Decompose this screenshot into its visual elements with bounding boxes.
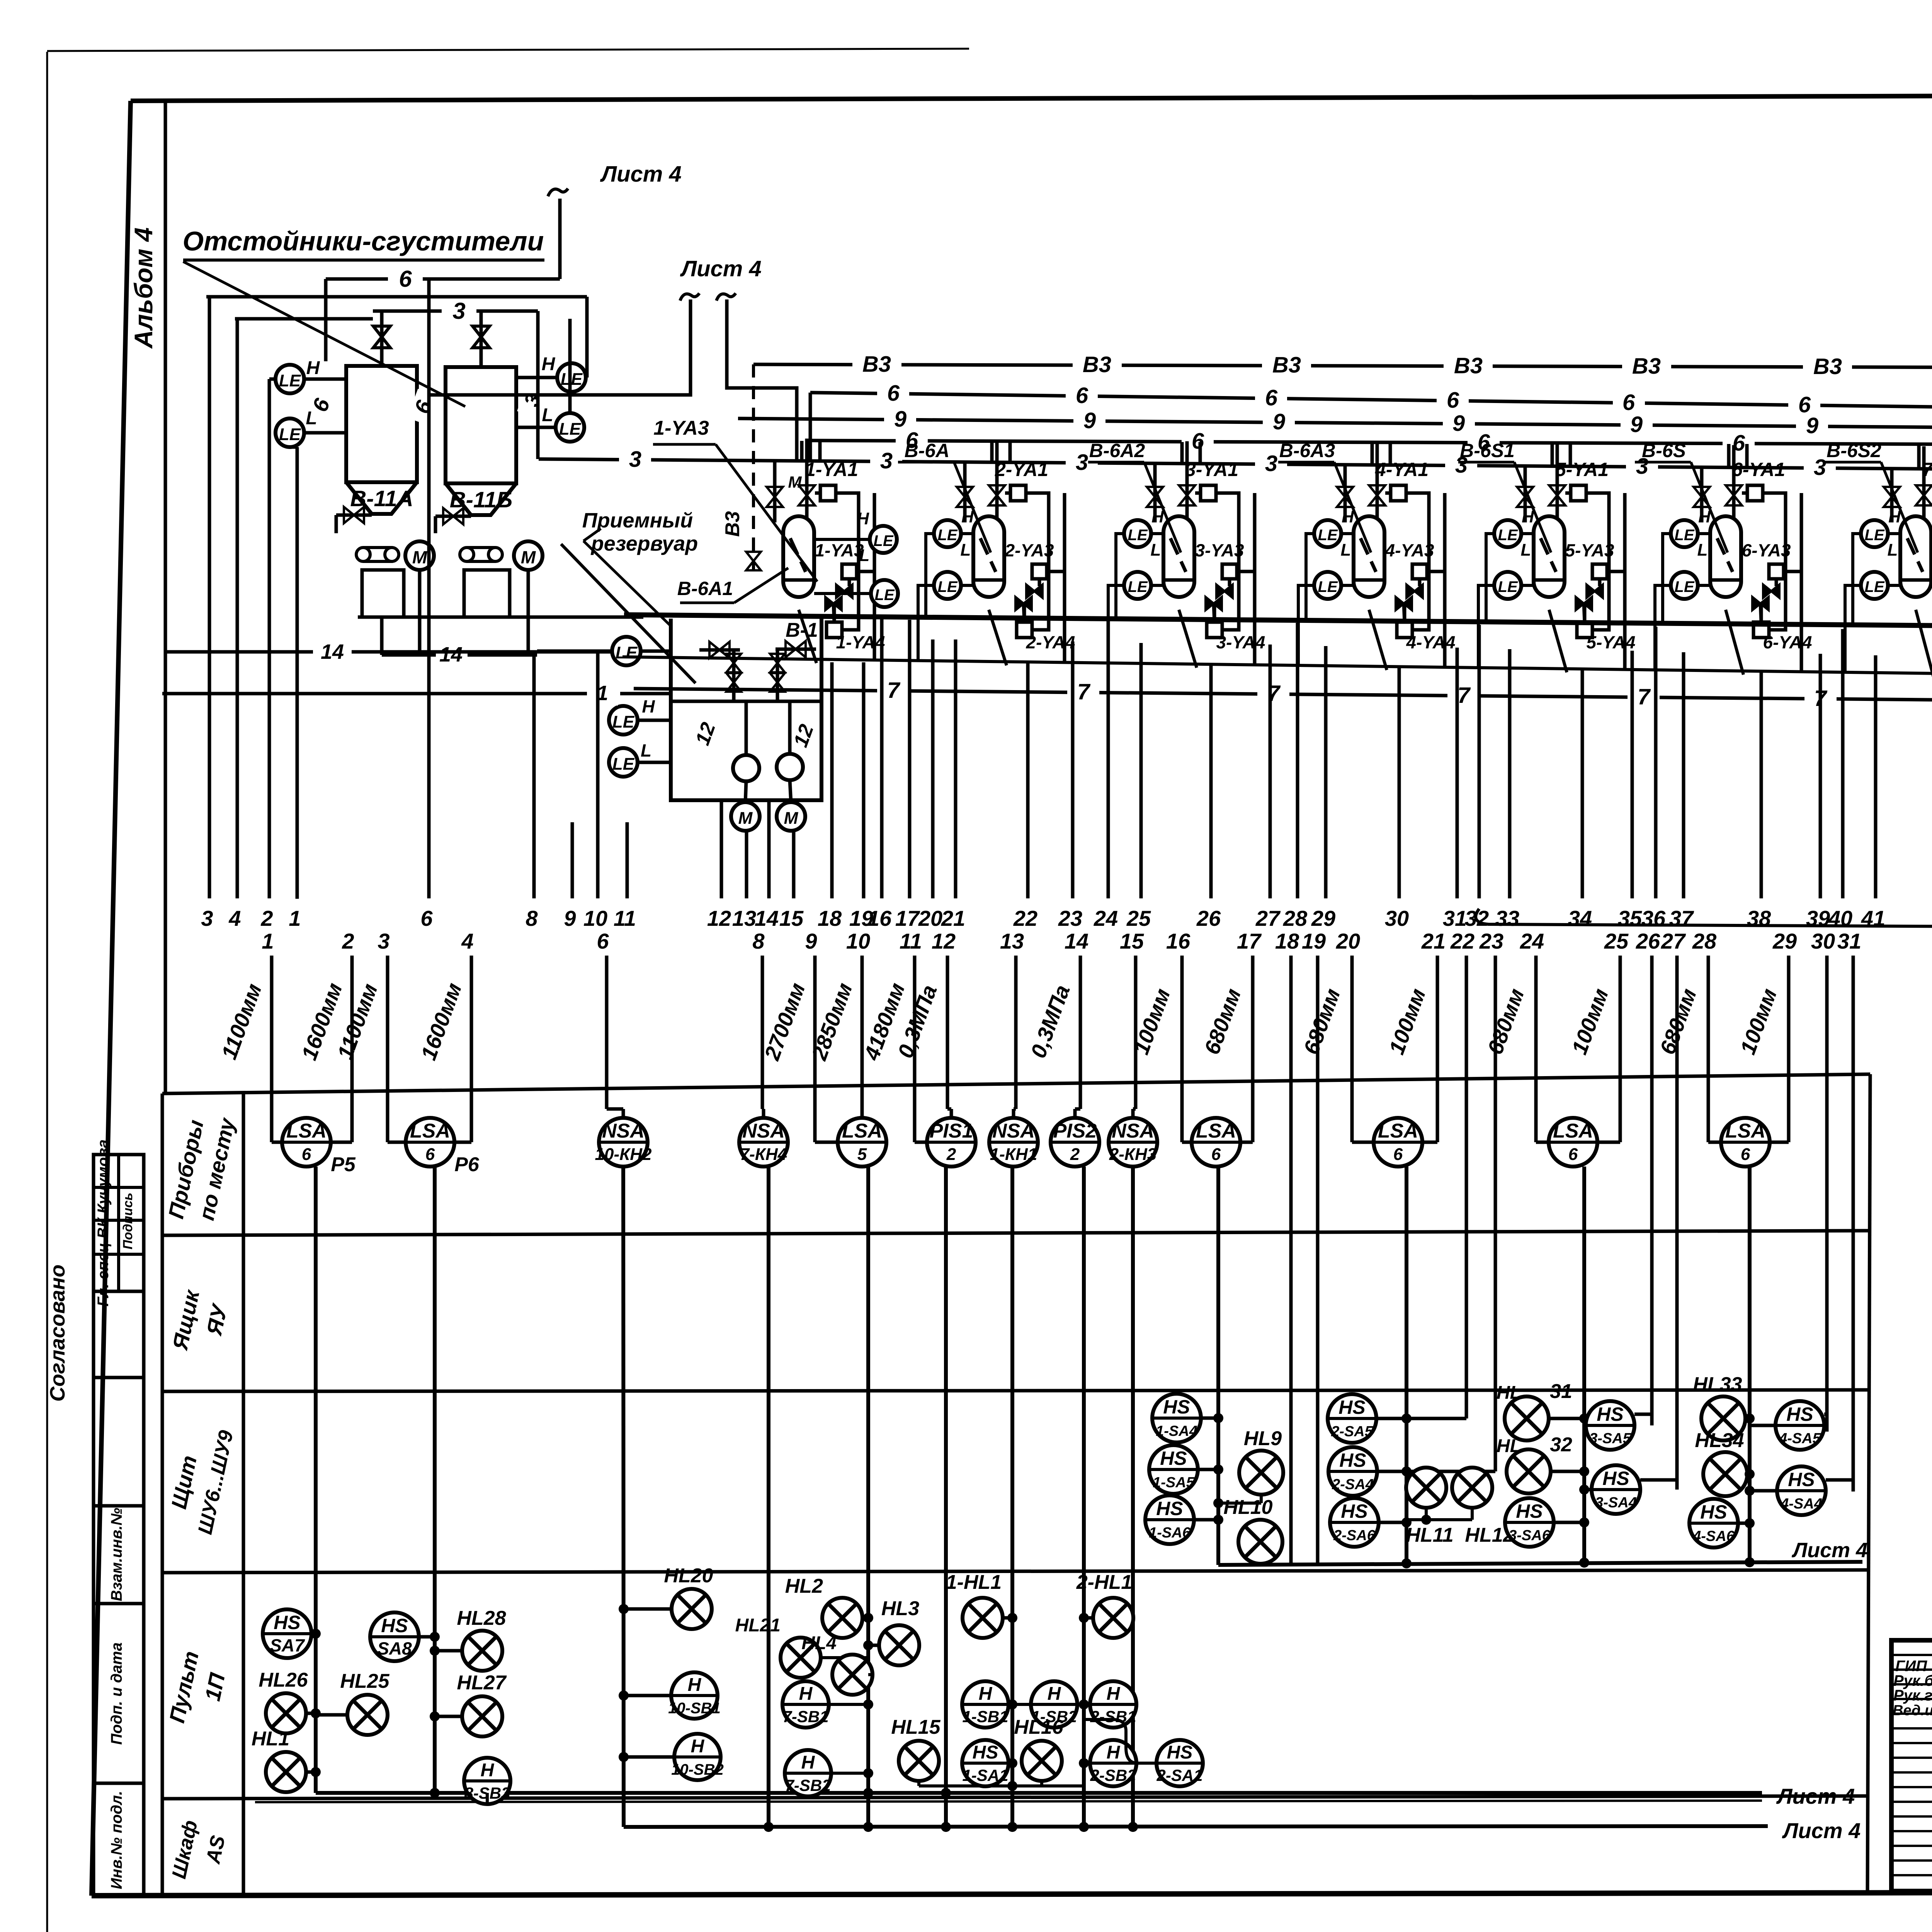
svg-text:8: 8: [526, 906, 538, 930]
unit В-6А3 valve line left: [1344, 466, 1347, 522]
svg-text:10-КН2: 10-КН2: [595, 1145, 652, 1164]
svg-text:В-6S2: В-6S2: [1827, 440, 1881, 461]
terminal line 17: [908, 620, 912, 898]
wire PIS2 column: [1082, 1167, 1086, 1827]
svg-text:17: 17: [1237, 929, 1262, 953]
HS 1-SA6: [1145, 1495, 1194, 1544]
unit В-6S2 valve line left: [1890, 469, 1894, 522]
unit В-6А stub risers: [990, 442, 994, 463]
svg-text:21: 21: [1421, 929, 1446, 953]
unit В-6S tank slash: [1717, 538, 1733, 572]
bus 6 upper: [810, 393, 1932, 410]
instrument PIS2 2: [1051, 1118, 1099, 1167]
HS SA8: [370, 1612, 419, 1661]
unit В-6А2 stub risers: [1180, 442, 1184, 464]
svg-text:3-YA4: 3-YA4: [1216, 632, 1265, 652]
LE H left: [276, 365, 304, 393]
unit LE L 7: [1861, 572, 1888, 599]
unit solenoid 6-YA1: [1747, 485, 1763, 501]
button H 8-SB3: [464, 1758, 510, 1804]
svg-text:5-YA4: 5-YA4: [1587, 632, 1636, 652]
svg-text:32: 32: [1550, 1434, 1572, 1456]
svg-text:5-YA3: 5-YA3: [1565, 540, 1614, 560]
svg-text:8: 8: [752, 929, 765, 953]
unit В-6S control valves: [1763, 585, 1771, 598]
sheet frame top: [131, 94, 1932, 101]
drop to terminal 1: [296, 447, 299, 899]
terminal line 29: [1324, 646, 1328, 898]
unit В-6S right vertical: [1800, 493, 1803, 671]
instrument NSA 7-КН4: [739, 1118, 788, 1167]
svg-text:3-YA3: 3-YA3: [1195, 540, 1244, 560]
LE L priemny: [609, 748, 638, 777]
svg-text:HL25: HL25: [340, 1670, 389, 1692]
terminal line 20: [931, 639, 935, 898]
svg-text:2-SB2: 2-SB2: [1090, 1766, 1136, 1784]
svg-text:34: 34: [1568, 906, 1592, 930]
svg-text:LE: LE: [1128, 578, 1148, 595]
unit solenoid 2-YA1: [1010, 485, 1026, 501]
row divider Pult/Shkaf: [162, 1796, 1869, 1799]
svg-text:6: 6: [1622, 390, 1635, 415]
svg-text:Н: Н: [1107, 1684, 1121, 1704]
line under terminals to List4 with brace: [1476, 909, 1932, 937]
svg-text:16: 16: [1166, 929, 1190, 953]
terminal line 11: [626, 822, 629, 898]
lamp HL26: [266, 1693, 306, 1733]
lamp HL33: [1701, 1396, 1745, 1440]
pump body 2: [464, 570, 510, 617]
lamp HL10: [1238, 1520, 1282, 1564]
svg-text:7-SB1: 7-SB1: [782, 1708, 828, 1726]
svg-text:9: 9: [564, 906, 576, 930]
svg-text:SA7: SA7: [270, 1635, 305, 1655]
pipe y825: [235, 317, 373, 321]
svg-text:М: М: [521, 547, 536, 567]
svg-text:27: 27: [1255, 906, 1281, 930]
svg-text:HL26: HL26: [259, 1669, 308, 1691]
unit tank В-6А1: [783, 516, 814, 580]
svg-text:Н: Н: [688, 1675, 702, 1695]
unit В-6А1 right loop: [836, 493, 859, 630]
svg-text:1-SA1: 1-SA1: [962, 1766, 1008, 1784]
svg-text:6: 6: [1211, 1145, 1221, 1164]
svg-text:30: 30: [1811, 929, 1835, 953]
svg-text:3: 3: [1076, 450, 1088, 475]
cluster2 riser 22: [1406, 1417, 1466, 1420]
svg-text:P5: P5: [331, 1153, 356, 1176]
line 14 to left edge: [166, 650, 612, 654]
svg-text:LE: LE: [1864, 578, 1884, 595]
svg-text:HS: HS: [1516, 1500, 1543, 1522]
sheet frame left: [92, 101, 131, 1896]
svg-text:L: L: [961, 541, 971, 560]
svg-text:1-SA6: 1-SA6: [1149, 1525, 1191, 1541]
svg-text:LE: LE: [937, 527, 957, 544]
svg-text:PIS1: PIS1: [930, 1120, 973, 1142]
svg-text:9: 9: [1806, 413, 1818, 438]
unit tank В-6А2: [1163, 516, 1194, 580]
terminal line 13: [745, 832, 748, 898]
lamp HL31: [1505, 1396, 1549, 1440]
unit solenoid 1-YA3: [842, 564, 857, 579]
terminal line 28: [1296, 623, 1299, 898]
svg-text:NSA: NSA: [742, 1120, 785, 1142]
B-1 motor right: [777, 802, 805, 831]
bus 7: [634, 689, 1932, 702]
tank B-11B drain valve: [435, 515, 471, 518]
lamp HL34: [1703, 1452, 1747, 1496]
svg-text:2: 2: [1070, 1145, 1080, 1164]
svg-text:HL9: HL9: [1244, 1427, 1282, 1450]
button H 7-SB1: [782, 1681, 829, 1728]
svg-text:3: 3: [1814, 455, 1826, 480]
svg-text:26: 26: [1636, 929, 1660, 953]
terminal line 16: [880, 618, 884, 898]
agitator capsule 1: [356, 548, 370, 561]
svg-text:HL: HL: [1497, 1383, 1521, 1403]
unit В-6А3 right loop: [1406, 493, 1429, 630]
wire NSA1KH1 column: [1010, 1167, 1014, 1827]
svg-text:6: 6: [420, 906, 433, 930]
row divider Yaschik/Schit: [162, 1390, 1869, 1391]
svg-text:14: 14: [1065, 929, 1088, 953]
B-1 tank outline: [671, 619, 821, 800]
svg-text:HS: HS: [1167, 1742, 1193, 1763]
svg-text:H: H: [306, 358, 320, 378]
svg-text:7-YA1: 7-YA1: [1922, 459, 1932, 480]
drop to terminal 4: [236, 319, 239, 898]
svg-text:В3: В3: [1272, 352, 1301, 378]
terminal line 25: [1139, 643, 1143, 898]
svg-text:2-КН3: 2-КН3: [1109, 1145, 1156, 1164]
pump body 1: [362, 570, 404, 617]
svg-text:9: 9: [1630, 412, 1643, 437]
svg-text:LE: LE: [616, 643, 638, 662]
unit LE H 6: [1671, 520, 1698, 547]
motor M1: [405, 541, 434, 570]
svg-text:LSA: LSA: [1553, 1120, 1593, 1142]
svg-text:28: 28: [1283, 906, 1308, 930]
terminal line 12: [720, 801, 723, 898]
svg-text:3: 3: [1265, 451, 1277, 476]
svg-text:HL16: HL16: [1014, 1716, 1063, 1738]
svg-text:7: 7: [1638, 684, 1651, 709]
svg-text:L: L: [542, 405, 553, 425]
valve over B-11B: [480, 311, 483, 367]
paper edge left: [46, 52, 48, 1932]
terminal line 33: [1508, 649, 1512, 898]
terminal line 18: [830, 662, 834, 898]
svg-text:2-HL1: 2-HL1: [1076, 1571, 1132, 1594]
unit В-6А2 valve line right: [1185, 441, 1189, 522]
wire LSA6-4 column: [1748, 1167, 1752, 1562]
bus B3: [753, 364, 1932, 368]
unit В-6S valve line right: [1732, 445, 1736, 522]
terminal line 3: [208, 301, 211, 898]
unit В-6А1 stub risers: [800, 441, 804, 462]
svg-text:LE: LE: [279, 425, 301, 444]
unit solenoid 6-YA3: [1769, 564, 1784, 579]
svg-text:2-YA4: 2-YA4: [1026, 632, 1075, 652]
svg-text:23: 23: [1479, 929, 1503, 953]
svg-text:В3: В3: [1454, 353, 1483, 378]
svg-text:HS: HS: [1788, 1469, 1815, 1490]
row divider Schit/Pult: [162, 1570, 1869, 1573]
svg-text:HS: HS: [1156, 1498, 1183, 1519]
svg-text:Подп. и дата: Подп. и дата: [108, 1643, 125, 1745]
unit В-6А1 control valves: [836, 585, 844, 598]
pump baseline: [358, 616, 643, 619]
svg-text:14: 14: [439, 643, 463, 666]
svg-text:31: 31: [1837, 929, 1861, 953]
unit LE L 1: [871, 580, 898, 607]
svg-text:HL20: HL20: [664, 1565, 713, 1587]
B-1 inlet valve left: [699, 648, 740, 652]
svg-text:В-6А: В-6А: [905, 440, 950, 461]
HS 2-SA5: [1328, 1394, 1376, 1443]
svg-text:HL2: HL2: [785, 1575, 823, 1597]
svg-text:10: 10: [846, 929, 870, 953]
leader to tank B-11B: [183, 262, 465, 406]
unit В-6А1 tank outlet: [799, 610, 816, 663]
svg-text:11: 11: [614, 906, 636, 930]
unit В-6S1 tank slash: [1541, 538, 1556, 572]
svg-text:2: 2: [260, 906, 273, 930]
unit В-6А valve line left: [963, 463, 967, 522]
unit В-6А2 right vertical: [1253, 493, 1257, 664]
unit solenoid 4-YA4: [1397, 622, 1412, 638]
terminal line 22: [1026, 663, 1030, 898]
svg-text:19: 19: [1302, 929, 1326, 953]
svg-text:17: 17: [895, 906, 920, 930]
instrument NSA 2-КН3: [1109, 1118, 1157, 1167]
slanted 6 label mid: [407, 389, 441, 426]
terminal line 40: [1841, 629, 1845, 898]
lamp HL20: [672, 1589, 712, 1629]
unit В-6S2 valve line right: [1922, 446, 1926, 522]
terminal line 38: [1760, 672, 1763, 898]
unit В-6А2 LE drops: [1116, 534, 1124, 619]
LE H priemny: [609, 706, 638, 735]
unit В-6S stub risers: [1727, 444, 1731, 468]
svg-text:4-SA5: 4-SA5: [1779, 1430, 1821, 1447]
svg-text:4-SA6: 4-SA6: [1692, 1528, 1735, 1544]
svg-text:20: 20: [918, 906, 942, 930]
unit solenoid 6-YA4: [1753, 622, 1769, 638]
unit LE H 1: [870, 526, 897, 553]
unit LE L 5: [1494, 572, 1521, 599]
priemny rezervuar diagonal: [561, 544, 696, 683]
svg-text:6: 6: [399, 266, 412, 292]
svg-text:Лист 4: Лист 4: [1782, 1818, 1861, 1843]
svg-text:HL10: HL10: [1223, 1496, 1272, 1519]
unit LE H 2: [934, 520, 961, 547]
LE H right: [557, 363, 586, 392]
svg-text:Рук.гр.: Рук.гр.: [1893, 1687, 1932, 1704]
svg-text:В3: В3: [1632, 354, 1661, 379]
switch HS 2-SA1: [1156, 1740, 1203, 1786]
unit В-6S right loop: [1763, 493, 1786, 630]
unit solenoid 1-YA4: [827, 622, 842, 638]
unit LE H 5: [1494, 520, 1521, 547]
svg-text:1-КН1: 1-КН1: [990, 1145, 1037, 1164]
unit В-6S LE drops: [1663, 534, 1671, 624]
lamp 1-HL1: [963, 1598, 1003, 1638]
terminal line 15: [792, 832, 796, 898]
svg-text:Отстойники-сгустители: Отстойники-сгустители: [183, 226, 544, 256]
svg-text:31: 31: [1550, 1380, 1572, 1403]
unit solenoid 2-YA3: [1032, 564, 1047, 579]
lamp HL2: [822, 1598, 862, 1638]
unit solenoid 2-YA4: [1017, 622, 1032, 638]
svg-text:33: 33: [1495, 906, 1519, 930]
HS 2-SA4: [1328, 1447, 1377, 1496]
lamp HL25: [347, 1695, 388, 1735]
bus 6 lower: [811, 440, 1932, 445]
svg-text:2-SA1: 2-SA1: [1156, 1766, 1202, 1784]
main thick bus: [624, 615, 1932, 629]
unit В-6А2 tank outlet: [1179, 610, 1197, 668]
svg-text:2-SA5: 2-SA5: [1331, 1423, 1373, 1440]
svg-text:1-SA4: 1-SA4: [1156, 1423, 1197, 1439]
svg-text:35: 35: [1618, 906, 1642, 930]
svg-text:HS: HS: [1160, 1447, 1187, 1469]
vertical 6 line left: [324, 279, 328, 361]
unit solenoid 3-YA1: [1201, 485, 1216, 501]
svg-text:HL1: HL1: [252, 1728, 289, 1750]
svg-text:21: 21: [941, 906, 965, 930]
svg-text:4: 4: [228, 906, 241, 930]
svg-text:В-6А2: В-6А2: [1089, 440, 1145, 461]
unit LE L 6: [1671, 572, 1698, 599]
unit В-6S2 LE drops: [1853, 534, 1861, 625]
svg-text:10: 10: [583, 906, 607, 930]
table right border: [1867, 1074, 1870, 1891]
unit В-6А1 tank slash: [790, 538, 806, 572]
stamp signature box dividers: [117, 1155, 120, 1291]
lamp HL32: [1507, 1449, 1551, 1493]
unit В-6S1 right vertical: [1623, 493, 1627, 668]
svg-text:1: 1: [289, 906, 301, 930]
wire LSA6-1 column to schit cluster1: [1216, 1167, 1220, 1565]
tank B-11B: [446, 367, 516, 483]
svg-text:В3: В3: [1083, 352, 1111, 377]
unit В-6S tank outlet: [1726, 610, 1743, 675]
svg-text:3-YA1: 3-YA1: [1185, 459, 1238, 480]
B-1 double valve left: [732, 650, 736, 701]
svg-text:LE: LE: [1498, 527, 1518, 544]
HS 1-SA5: [1149, 1445, 1198, 1494]
svg-text:4-YA4: 4-YA4: [1406, 632, 1456, 652]
instrument LSA 6: [1374, 1118, 1422, 1167]
tank B-11A drain valve: [336, 514, 372, 517]
svg-text:3: 3: [201, 906, 213, 930]
svg-text:Подпись: Подпись: [121, 1193, 135, 1250]
unit В-6А3 tank outlet: [1369, 610, 1387, 670]
motor M2: [514, 541, 543, 570]
HS 3-SA5: [1586, 1401, 1634, 1450]
HS 2-SA6: [1330, 1498, 1379, 1547]
svg-text:В-11А: В-11А: [350, 486, 413, 511]
lamps HL11 HL12: [1406, 1468, 1446, 1508]
unit tank В-6А3: [1354, 516, 1384, 580]
svg-text:2-SB1: 2-SB1: [1090, 1708, 1136, 1726]
svg-text:М: М: [788, 473, 802, 491]
right side pipe to 3 bus: [536, 311, 540, 459]
unit solenoid 1-YA1: [820, 485, 836, 501]
M1 drop: [418, 570, 422, 652]
unit В-6S1 control valves: [1587, 585, 1595, 598]
thin line w2: [255, 1801, 1762, 1802]
unit solenoid 3-YA4: [1207, 622, 1222, 638]
svg-text:HL27: HL27: [457, 1672, 507, 1694]
svg-text:6: 6: [1568, 1145, 1578, 1164]
svg-text:23: 23: [1058, 906, 1082, 930]
wire PIS1 column: [944, 1167, 948, 1827]
svg-text:В3: В3: [721, 511, 744, 537]
instrument LSA 6 P5: [282, 1118, 331, 1167]
svg-text:Н: Н: [481, 1760, 495, 1781]
svg-text:HL15: HL15: [891, 1716, 940, 1738]
unit В-6А1 valve line right: [805, 439, 809, 522]
button H 7-SB2: [785, 1750, 831, 1796]
unit tank В-6S1: [1534, 516, 1565, 580]
tank B-11A: [346, 366, 417, 482]
svg-text:LE: LE: [279, 371, 301, 390]
svg-text:LE: LE: [1674, 527, 1694, 544]
svg-text:NSA: NSA: [602, 1120, 645, 1142]
drop to terminal 3: [208, 297, 211, 898]
unit В-6S2 tank slash: [1907, 538, 1923, 572]
row label divider: [242, 1093, 245, 1896]
svg-text:12: 12: [932, 929, 956, 953]
button H 2-SB2: [1090, 1740, 1136, 1786]
wire NSA10 column: [623, 1167, 624, 1827]
svg-text:3-SA5: 3-SA5: [1589, 1430, 1631, 1447]
svg-text:М: М: [738, 809, 753, 828]
HS 4-SA5: [1776, 1401, 1824, 1450]
svg-text:NSA: NSA: [992, 1120, 1035, 1142]
svg-text:24: 24: [1520, 929, 1544, 953]
agitator capsule 2: [460, 548, 474, 561]
terminal line 36: [1654, 627, 1658, 898]
instrument NSA 1-КН1: [989, 1118, 1038, 1167]
svg-text:1-YA3: 1-YA3: [653, 417, 709, 439]
unit В-6S2 stub risers: [1917, 444, 1921, 469]
unit В-6А3 control valves: [1406, 585, 1415, 598]
unit LE L 3: [1124, 572, 1151, 599]
unit В-6А3 valve line right: [1376, 442, 1379, 522]
svg-text:6: 6: [1076, 383, 1088, 408]
svg-text:LE: LE: [1864, 527, 1884, 544]
terminal line 10: [596, 653, 600, 898]
unit В-6А tank slash: [980, 538, 996, 572]
button H 1-SB1: [962, 1681, 1009, 1728]
svg-text:7-SB2: 7-SB2: [785, 1776, 831, 1794]
unit В-6А2 right loop: [1216, 493, 1239, 630]
svg-text:14: 14: [755, 906, 779, 930]
svg-text:Вед.инж.: Вед.инж.: [1893, 1702, 1932, 1719]
svg-text:36: 36: [1641, 906, 1666, 930]
lamp HL27: [462, 1696, 502, 1736]
svg-text:NSA: NSA: [1112, 1120, 1154, 1142]
svg-text:М: М: [412, 547, 428, 567]
terminal line 41: [1874, 655, 1878, 898]
unit В-6А LE drops: [926, 534, 934, 618]
svg-text:LSA: LSA: [842, 1120, 882, 1142]
HS SA7: [263, 1609, 311, 1658]
